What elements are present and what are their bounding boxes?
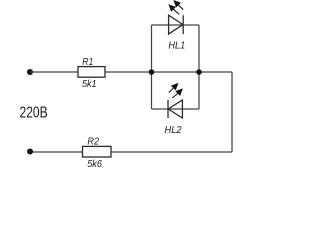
wire from left bottom terminal to R2 xyxy=(30,151,83,153)
resistor R2 xyxy=(83,146,112,157)
svg-text:220В: 220В xyxy=(20,105,48,122)
wire top branch xyxy=(152,24,200,26)
wire from R1 through loop to right vertical xyxy=(105,71,232,73)
svg-text:5k1: 5k1 xyxy=(82,78,97,90)
LED HL2 xyxy=(168,100,182,118)
LED HL1 xyxy=(169,15,184,34)
node junction left xyxy=(149,69,155,75)
node left top terminal xyxy=(27,69,33,75)
LED HL2 arrows (pointing up-right) xyxy=(169,84,182,98)
resistor R1 xyxy=(78,67,105,78)
node junction right xyxy=(196,69,202,75)
node left bottom terminal xyxy=(27,149,33,155)
svg-text:R2: R2 xyxy=(87,135,99,147)
wire bottom branch xyxy=(152,108,200,110)
wire from left terminal to R1 xyxy=(30,71,78,73)
svg-text:HL1: HL1 xyxy=(168,39,185,51)
svg-text:HL2: HL2 xyxy=(165,124,182,136)
wire loop right vertical xyxy=(198,25,200,109)
wire right vertical drop xyxy=(231,72,233,152)
wire loop left vertical xyxy=(151,25,153,109)
wire bottom from right vertical to R2 xyxy=(111,151,232,153)
LED HL1 arrows (pointing up-left) xyxy=(169,1,183,15)
svg-text:5k6: 5k6 xyxy=(87,158,102,168)
svg-text:R1: R1 xyxy=(82,56,93,68)
